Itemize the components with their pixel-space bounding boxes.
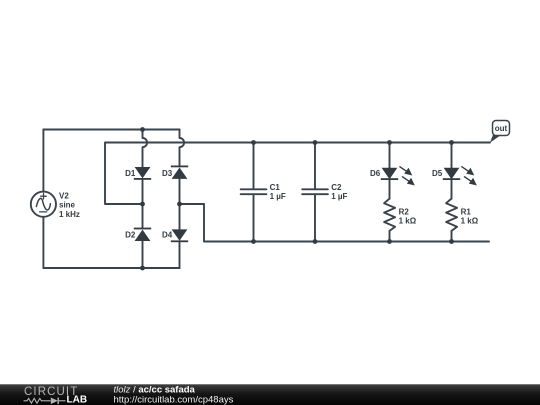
LED D5 emission arrows — [461, 166, 475, 184]
capacitor C2 — [302, 189, 328, 194]
junction node bottom rail / C1 — [251, 239, 256, 244]
junction node mid rail / D6 — [387, 140, 392, 145]
junction node mid rail / C2 — [313, 140, 318, 145]
wire C2 top — [314, 143, 316, 190]
wire C1 top — [253, 143, 255, 190]
diode D4 — [171, 229, 188, 242]
svg-text:1 kΩ: 1 kΩ — [461, 217, 479, 226]
svg-text:V2: V2 — [59, 191, 69, 200]
wire R2 to bottom rail — [389, 231, 391, 242]
svg-text:R1: R1 — [461, 207, 472, 216]
footer bar — [0, 384, 540, 405]
label C1 1 uF — [270, 183, 286, 201]
wire D6 to R2 — [389, 179, 391, 199]
wire left vertical from top rail to source top — [42, 130, 44, 192]
junction node D3 D4 midpoint — [177, 202, 182, 207]
node out flag — [490, 121, 510, 143]
wire D1 column with hop over mid wire — [143, 130, 148, 168]
wire D5 to R1 — [451, 179, 453, 199]
wire D3 to mid junction — [179, 179, 181, 204]
junction node bottom rail / R2 — [387, 239, 392, 244]
resistor R1 — [446, 199, 457, 231]
svg-text:D3: D3 — [162, 169, 173, 178]
label R1 1 kOhm — [461, 207, 479, 225]
voltage source V2 — [31, 192, 56, 217]
junction node top rail / D1 — [140, 127, 145, 132]
svg-text:out: out — [495, 124, 508, 133]
wire bottom rail — [43, 267, 179, 269]
logo circuit line with resistor and diode — [24, 398, 66, 405]
svg-text:D6: D6 — [370, 169, 381, 178]
svg-text:1 kHz: 1 kHz — [59, 210, 80, 219]
svg-text:D2: D2 — [125, 231, 136, 240]
svg-text:D5: D5 — [432, 169, 443, 178]
wire mid junction to D4 — [179, 204, 181, 229]
junction node bottom rail / R1 — [449, 239, 454, 244]
LED D5 — [443, 168, 460, 180]
junction node mid rail / D5 — [449, 140, 454, 145]
wire right bridge mid to bottom distribution rail — [180, 204, 490, 242]
svg-text:1 µF: 1 µF — [270, 192, 286, 201]
svg-text:D4: D4 — [162, 231, 173, 240]
junction node bottom rail / D2 — [140, 266, 145, 271]
wire D3 column with hop over mid wire — [180, 130, 185, 167]
svg-text:1 µF: 1 µF — [331, 192, 347, 201]
svg-text:LAB: LAB — [67, 395, 88, 405]
junction node bottom rail / C2 — [313, 239, 318, 244]
svg-text:sine: sine — [59, 201, 76, 210]
svg-text:C2: C2 — [331, 183, 342, 192]
wire left vertical from source bottom to bottom rail — [42, 217, 44, 268]
LED D6 emission arrows — [399, 166, 413, 184]
svg-text:D1: D1 — [125, 169, 136, 178]
wire top rail — [43, 129, 179, 131]
wire C2 bottom — [314, 195, 316, 242]
svg-text:C1: C1 — [270, 183, 281, 192]
svg-text:R2: R2 — [399, 207, 410, 216]
junction node D1 D2 midpoint — [140, 202, 145, 207]
label C2 1 uF — [331, 183, 347, 201]
resistor R2 — [384, 199, 395, 231]
wire R1 to bottom rail — [451, 231, 453, 242]
wire C1 bottom — [253, 195, 255, 242]
wire mid junction to D2 — [142, 204, 144, 228]
wire D4 to bottom rail — [179, 241, 181, 268]
capacitor C1 — [241, 189, 267, 194]
wire D6 top — [389, 143, 391, 168]
diode D3 — [171, 166, 188, 179]
wire left bridge mid to top distribution rail — [105, 143, 490, 205]
wire D1 to mid junction — [142, 179, 144, 204]
label V2 sine 1 kHz — [59, 191, 80, 219]
diode D2 — [134, 228, 151, 241]
label R2 1 kOhm — [399, 207, 417, 225]
svg-text:http://circuitlab.com/cp48ays: http://circuitlab.com/cp48ays — [114, 394, 234, 405]
svg-text:1 kΩ: 1 kΩ — [399, 217, 417, 226]
wire D2 to bottom rail — [142, 241, 144, 268]
wire D5 top — [451, 143, 453, 168]
LED D6 — [381, 168, 398, 180]
diode D1 — [134, 167, 151, 180]
junction node mid rail / C1 — [251, 140, 256, 145]
